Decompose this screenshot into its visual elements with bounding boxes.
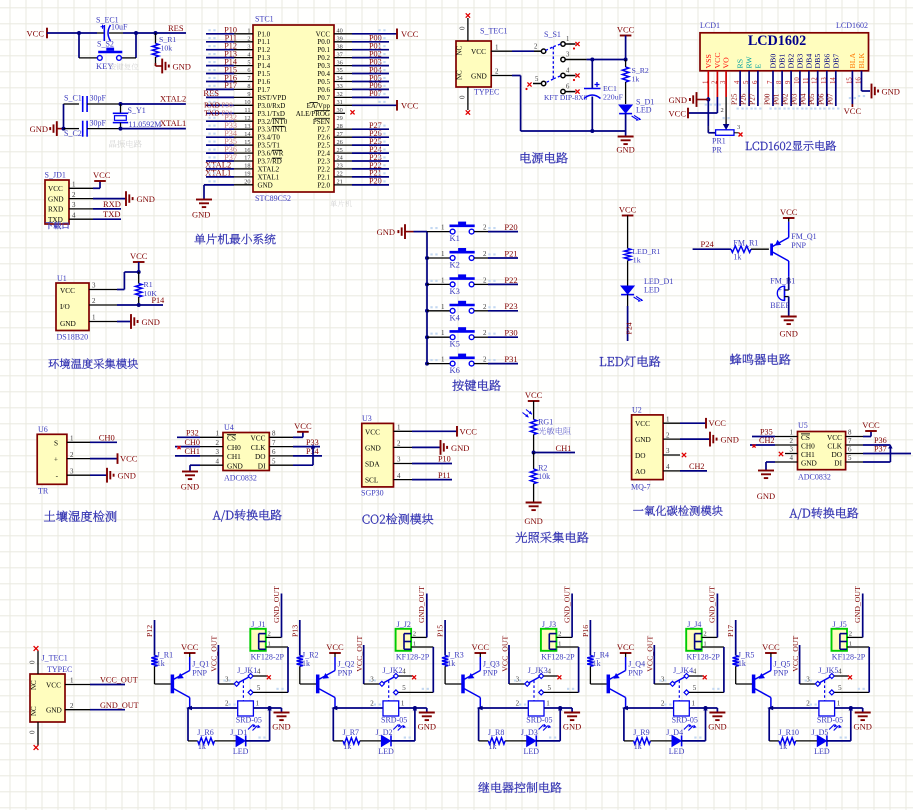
svg-text:PNP: PNP	[628, 669, 643, 678]
svg-text:12: 12	[244, 115, 250, 122]
svg-text:TYPEC: TYPEC	[474, 88, 499, 97]
J_TEC1 top stub	[37, 651, 39, 674]
svg-text:GND: GND	[30, 124, 48, 134]
svg-text:VCC_OUT: VCC_OUT	[791, 636, 800, 672]
node R1 top	[137, 270, 141, 274]
svg-text:KF128-2P: KF128-2P	[687, 653, 721, 662]
svg-text:1k: 1k	[198, 742, 206, 751]
resistor J_R9 1k	[634, 738, 651, 744]
svg-text:2: 2	[247, 36, 250, 43]
no-connect pin30	[350, 110, 354, 114]
svg-text:LED: LED	[669, 747, 685, 756]
transistor J_Q5 PNP	[752, 675, 756, 694]
U4 pin1 wire	[200, 436, 223, 438]
svg-text:3: 3	[92, 282, 96, 290]
svg-text:S_Y1: S_Y1	[128, 106, 146, 115]
svg-text:VCC: VCC	[27, 29, 45, 39]
caption grey an jian fu wei	[109, 63, 139, 70]
svg-text:7: 7	[848, 437, 852, 445]
svg-text:1k: 1k	[632, 75, 640, 84]
svg-text:VCC: VCC	[93, 170, 111, 180]
svg-text:VCC_OUT: VCC_OUT	[100, 676, 138, 685]
svg-text:P3.1/TxD: P3.1/TxD	[258, 110, 285, 118]
ground U4	[182, 471, 198, 473]
svg-text:VCC: VCC	[60, 286, 75, 295]
svg-text:GND: GND	[616, 145, 634, 155]
LED loop 1	[187, 708, 189, 741]
U6 pin2 wire	[67, 458, 90, 460]
svg-text:+: +	[54, 455, 58, 464]
svg-text:P3.7/RD: P3.7/RD	[258, 158, 282, 166]
svg-text:PNP: PNP	[774, 669, 789, 678]
transistor J_Q3 PNP	[461, 675, 465, 694]
svg-text:CH2: CH2	[759, 436, 774, 445]
push button K1	[427, 231, 450, 233]
svg-text:1: 1	[546, 700, 550, 708]
wire relay node 1	[186, 706, 192, 710]
svg-text:6: 6	[848, 446, 852, 454]
title dian yuan dian lu	[521, 152, 568, 163]
svg-text:0: 0	[459, 26, 467, 30]
connector J_J3 KF128-2P	[541, 629, 557, 651]
svg-text:ALE/PROG: ALE/PROG	[296, 110, 330, 118]
svg-text:26: 26	[337, 139, 343, 146]
svg-text:2: 2	[849, 631, 852, 638]
wire relay pin1 3	[544, 707, 572, 709]
transistor FM_Q1 PNP	[770, 244, 773, 256]
wire switch pin3 to rail	[587, 59, 626, 61]
svg-text:K4: K4	[450, 312, 461, 322]
svg-text:RES: RES	[203, 88, 219, 98]
MCU right wires P27-P20	[352, 128, 389, 130]
svg-text:24: 24	[337, 155, 344, 162]
wire RES to MCU	[206, 96, 234, 98]
svg-text:GND: GND	[418, 722, 436, 732]
svg-text:RXD: RXD	[48, 206, 63, 214]
svg-text:J_J3: J_J3	[542, 620, 556, 629]
svg-text:0: 0	[29, 730, 37, 734]
svg-text:P26: P26	[739, 93, 748, 105]
svg-text:K3: K3	[450, 286, 460, 296]
svg-text:PSEN: PSEN	[313, 118, 330, 126]
U1 pin1 wire	[89, 321, 117, 323]
svg-text:VSS: VSS	[704, 54, 713, 68]
svg-text:J_Q4: J_Q4	[628, 660, 645, 669]
svg-text:1: 1	[441, 250, 445, 258]
svg-text:1: 1	[441, 303, 445, 311]
svg-text:P1.4: P1.4	[258, 62, 271, 70]
svg-text:1: 1	[566, 36, 569, 43]
svg-text:1k: 1k	[489, 742, 497, 751]
svg-text:P02: P02	[781, 93, 790, 105]
MCU left pin stubs	[234, 33, 253, 35]
svg-text:GND: GND	[635, 435, 651, 444]
svg-text:PR1: PR1	[712, 137, 726, 146]
potentiometer PR1	[708, 132, 715, 134]
svg-text:BEEP: BEEP	[770, 301, 790, 310]
sensor U6 TR body	[37, 434, 67, 484]
pin 4 S_JD1	[69, 218, 93, 220]
key bus wire	[426, 232, 428, 364]
ground relay 2	[426, 708, 428, 712]
svg-text:RXD: RXD	[103, 199, 121, 209]
svg-text:K2: K2	[450, 260, 460, 270]
LED loop 3	[478, 708, 480, 741]
svg-text:GND: GND	[258, 181, 273, 189]
svg-text:P24: P24	[701, 239, 715, 249]
svg-text:P00: P00	[763, 93, 772, 105]
wire relay input 2	[299, 620, 301, 656]
svg-text:J_D5: J_D5	[812, 728, 829, 737]
svg-text:TXD: TXD	[103, 209, 120, 219]
svg-text:GND: GND	[779, 329, 797, 339]
power rail VCC flag	[46, 28, 48, 39]
svg-text:CH1: CH1	[227, 452, 241, 461]
VCC port S_JD1	[93, 187, 100, 189]
svg-text:P13: P13	[290, 625, 299, 637]
svg-text:KF128-2P: KF128-2P	[251, 653, 285, 662]
resistor J_R5 1k	[733, 656, 739, 667]
resistor J_R4 1k	[587, 656, 593, 667]
svg-text:CH0: CH0	[99, 432, 115, 442]
svg-text:LCD1: LCD1	[700, 21, 720, 30]
svg-text:VCC: VCC	[471, 47, 486, 56]
svg-text:ADC0832: ADC0832	[798, 473, 831, 482]
svg-text:3: 3	[216, 448, 220, 456]
connector J_J2 KF128-2P	[396, 629, 412, 651]
svg-text:P1.6: P1.6	[258, 78, 271, 86]
svg-text:ADC0832: ADC0832	[224, 474, 257, 483]
svg-text:J_D2: J_D2	[376, 728, 393, 737]
wire node to key branch	[78, 33, 80, 58]
wire KF pin2 2	[411, 636, 427, 638]
U4 pin2 wire	[200, 446, 223, 448]
ground flag S_JD1	[93, 198, 126, 200]
U5 pin6 wire	[846, 453, 863, 455]
svg-text:P11: P11	[438, 471, 450, 480]
connector J_J4 KF128-2P	[686, 629, 702, 651]
svg-text:4: 4	[666, 463, 670, 471]
U4 pin5 wire	[269, 464, 293, 466]
svg-text:P1.5: P1.5	[258, 70, 271, 78]
svg-text:VCC: VCC	[525, 390, 543, 400]
svg-text:VCC: VCC	[48, 185, 63, 193]
svg-text:10k: 10k	[538, 472, 550, 481]
U1 pin2 wire	[89, 304, 117, 306]
svg-text:1: 1	[558, 640, 561, 647]
svg-text:27: 27	[337, 131, 343, 138]
svg-text:1: 1	[703, 640, 706, 647]
svg-text:SCL: SCL	[365, 476, 379, 485]
svg-text:40: 40	[337, 28, 343, 35]
svg-text:GND: GND	[524, 516, 542, 526]
U3 pin1 wire	[394, 430, 413, 432]
svg-text:DB3: DB3	[795, 54, 804, 69]
LED loop 5	[768, 708, 770, 741]
svg-text:BLA: BLA	[848, 53, 857, 69]
svg-text:U1: U1	[57, 274, 67, 283]
svg-text:P0.1: P0.1	[317, 46, 330, 54]
svg-text:P3.6/WR: P3.6/WR	[258, 150, 284, 158]
svg-text:P0.4: P0.4	[317, 70, 330, 78]
title AD zhuan huan 1	[213, 509, 282, 521]
svg-text:NC: NC	[456, 45, 464, 55]
wire relay node 2	[331, 706, 337, 710]
svg-text:3: 3	[566, 52, 570, 59]
svg-text:VCC: VCC	[713, 52, 722, 68]
svg-text:U3: U3	[362, 414, 372, 423]
svg-text:P0.3: P0.3	[317, 62, 330, 70]
svg-text:S: S	[54, 439, 58, 448]
LED J_D2	[381, 735, 390, 746]
svg-text:0: 0	[29, 660, 37, 664]
svg-text:14: 14	[244, 131, 251, 138]
svg-text:GND_OUT: GND_OUT	[100, 701, 139, 710]
svg-text:22: 22	[337, 171, 343, 178]
svg-text:VCC: VCC	[762, 642, 780, 652]
MCU right wires P00-P07	[352, 41, 389, 43]
svg-text:FM_R1: FM_R1	[733, 239, 758, 248]
svg-text:GND: GND	[48, 195, 64, 203]
svg-text:P37: P37	[874, 445, 887, 454]
capacitor S_C1 30pF	[82, 96, 84, 112]
svg-text:J_R9: J_R9	[633, 728, 649, 737]
svg-text:23: 23	[337, 163, 343, 170]
svg-text:J_JK4: J_JK4	[673, 666, 693, 675]
U2 pin1 wire	[663, 422, 680, 424]
svg-text:P32: P32	[186, 429, 199, 438]
svg-text:XTAL1: XTAL1	[258, 173, 280, 181]
svg-text:J_TEC1: J_TEC1	[42, 654, 68, 663]
svg-text:2: 2	[483, 329, 487, 337]
resistor J_R10 1k	[779, 738, 796, 744]
svg-text:11: 11	[244, 107, 250, 114]
U2 pin2 wire	[663, 438, 680, 440]
svg-text:P10: P10	[438, 455, 451, 464]
ground relay 5	[862, 708, 864, 712]
ground flag U3	[440, 440, 442, 455]
svg-text:VCC: VCC	[709, 418, 727, 428]
node xtal1	[119, 127, 123, 131]
MCU U-STC1 body	[253, 25, 334, 192]
sensor U1 DS18B20 body	[56, 283, 89, 331]
svg-text:13: 13	[244, 123, 250, 130]
svg-text:10k: 10k	[161, 44, 173, 53]
svg-text:1: 1	[441, 356, 445, 364]
svg-text:VCC: VCC	[635, 419, 650, 428]
relay SRD-05 1	[238, 701, 254, 716]
svg-text:VCC: VCC	[294, 421, 312, 431]
svg-text:P14: P14	[152, 296, 165, 305]
svg-text:GND: GND	[451, 443, 469, 453]
title feng ming qi dian lu	[730, 354, 791, 365]
resistor J_R3 1k	[442, 656, 448, 667]
relay SRD-05 5	[819, 701, 835, 716]
svg-text:2: 2	[483, 250, 487, 258]
svg-text:P30: P30	[222, 101, 234, 109]
svg-text:DI: DI	[834, 458, 842, 467]
wire relay pin1 1	[253, 707, 281, 709]
wire XTAL1	[121, 128, 186, 130]
svg-text:VCC: VCC	[617, 642, 635, 652]
svg-text:U2: U2	[632, 406, 642, 415]
wire KF pin1 4	[702, 646, 724, 648]
wire XTAL2	[121, 103, 186, 105]
wire KF pin2 1	[266, 636, 282, 638]
wire TXD	[93, 218, 121, 220]
LCD pin15 wire	[851, 71, 853, 104]
capacitor S_EC1	[97, 32, 104, 34]
ground relay 1	[281, 708, 283, 712]
svg-text:SGP30: SGP30	[361, 489, 384, 498]
title LCD1602 xian shi dian lu	[746, 141, 837, 151]
U6 pin3 wire	[67, 474, 90, 476]
connector J_J5 KF128-2P	[832, 629, 848, 651]
pin 2 S_JD1	[69, 198, 93, 200]
svg-text:KF128-2P: KF128-2P	[541, 653, 575, 662]
svg-text:GND: GND	[137, 194, 155, 204]
svg-text:GND: GND	[227, 462, 243, 471]
relay SRD-05 3	[528, 701, 544, 716]
svg-text:1: 1	[268, 640, 271, 647]
wire KF pin2 3	[556, 636, 572, 638]
push button K3	[425, 282, 429, 286]
svg-text:P21: P21	[504, 248, 517, 258]
U5 pin2 wire	[775, 444, 798, 446]
svg-text:P3.5/T1: P3.5/T1	[258, 142, 281, 150]
svg-text:6: 6	[272, 448, 276, 456]
svg-text:5: 5	[838, 684, 842, 692]
svg-text:CLK: CLK	[251, 443, 266, 452]
svg-text:PR: PR	[712, 146, 722, 155]
svg-text:J_Q3: J_Q3	[483, 660, 500, 669]
svg-text:P1.1: P1.1	[258, 38, 271, 46]
svg-text:P16: P16	[581, 625, 590, 637]
svg-text:VCC: VCC	[460, 426, 478, 436]
svg-text:2: 2	[70, 702, 74, 710]
title LED deng dian lu	[600, 356, 661, 367]
svg-text:DB1: DB1	[778, 54, 787, 69]
U5 pin7 wire	[846, 444, 863, 446]
svg-text:34: 34	[337, 75, 344, 82]
svg-text:3: 3	[790, 446, 794, 454]
svg-text:10: 10	[244, 99, 250, 106]
resistor J_R7 1k	[343, 738, 360, 744]
svg-text:VCC_OUT: VCC_OUT	[500, 636, 509, 672]
svg-text:4: 4	[548, 668, 552, 676]
svg-text:3: 3	[70, 467, 74, 475]
svg-text:2: 2	[703, 631, 706, 638]
svg-text:33: 33	[337, 83, 343, 90]
svg-text:GND: GND	[471, 71, 487, 80]
S_TEC1 pin1 wire	[491, 50, 512, 52]
wire KF pin1 3	[556, 646, 578, 648]
LED J_D4	[672, 735, 681, 746]
ground U5	[758, 470, 774, 472]
ground flag U2	[709, 432, 711, 447]
svg-text:J_J2: J_J2	[397, 620, 411, 629]
svg-text:CH0: CH0	[185, 438, 200, 447]
LCD pin2 VCC wire	[716, 71, 718, 97]
svg-text:P1.7: P1.7	[258, 86, 271, 94]
svg-text:S_C1: S_C1	[64, 94, 82, 103]
resistor J_R6 1k	[198, 738, 215, 744]
svg-text:J_JK3: J_JK3	[528, 666, 548, 675]
svg-text:GND: GND	[757, 491, 775, 501]
svg-text:3: 3	[397, 456, 401, 464]
svg-text:P03: P03	[789, 93, 798, 105]
svg-text:GND: GND	[118, 471, 136, 481]
svg-text:RW: RW	[745, 56, 754, 69]
U3 pin3 wire	[394, 463, 413, 465]
svg-text:2: 2	[534, 44, 538, 51]
svg-text:4: 4	[72, 211, 76, 219]
svg-text:DO: DO	[635, 451, 646, 460]
wire RXD	[93, 208, 121, 210]
svg-text:GND_OUT: GND_OUT	[853, 586, 862, 623]
svg-text:2: 2	[72, 191, 76, 199]
svg-text:GND: GND	[272, 722, 290, 732]
svg-text:+: +	[778, 286, 782, 294]
svg-text:P2.1: P2.1	[317, 173, 330, 181]
svg-text:0: 0	[459, 95, 467, 99]
wire KF pin2 5	[847, 636, 863, 638]
svg-text:MQ-7: MQ-7	[631, 483, 651, 492]
svg-text:KFT DIP-8X8: KFT DIP-8X8	[544, 93, 588, 102]
U4 pin6 wire	[269, 455, 293, 457]
svg-text:GND_OUT: GND_OUT	[272, 586, 281, 623]
wire	[135, 33, 137, 58]
svg-text:P20: P20	[504, 222, 517, 232]
svg-text:GND_OUT: GND_OUT	[708, 586, 717, 623]
svg-text:1: 1	[441, 329, 445, 337]
wire cap to RES	[123, 32, 136, 34]
U3 pin2 wire	[394, 446, 413, 448]
svg-text:VCC_OUT: VCC_OUT	[646, 636, 655, 672]
wire relay pin1 5	[835, 707, 863, 709]
wire P24 buzzer	[693, 248, 731, 250]
svg-text:15: 15	[244, 139, 250, 146]
svg-text:P31: P31	[504, 354, 517, 364]
svg-text:1: 1	[413, 640, 416, 647]
svg-text:J_J4: J_J4	[687, 620, 701, 629]
resistor LED_R1 1k	[624, 249, 630, 261]
svg-text:J_Q5: J_Q5	[774, 660, 791, 669]
LCD VCC flag	[687, 108, 689, 119]
svg-text:P2.6: P2.6	[317, 134, 330, 142]
svg-text:P17: P17	[224, 81, 237, 90]
LCD pin3 VO wire	[725, 71, 727, 97]
push button K4	[425, 309, 429, 313]
crystal S_Y1 11.0592M	[120, 104, 122, 113]
title AD zhuan huan 2	[789, 507, 858, 519]
svg-text:GND: GND	[192, 210, 210, 220]
svg-text:1: 1	[397, 424, 401, 432]
svg-text:P07: P07	[825, 93, 834, 105]
svg-text:1: 1	[70, 435, 74, 443]
LCD1 module body	[700, 33, 869, 71]
svg-text:32: 32	[337, 91, 343, 98]
svg-text:J_JK2: J_JK2	[383, 666, 403, 675]
svg-text:37: 37	[337, 51, 343, 58]
svg-text:XTAL2: XTAL2	[160, 94, 186, 104]
MCU VCC pin31	[352, 104, 397, 106]
svg-text:GND: GND	[721, 435, 739, 445]
svg-text:30: 30	[337, 107, 343, 114]
svg-text:3: 3	[666, 447, 670, 455]
wire RES	[136, 32, 186, 34]
svg-text:DB5: DB5	[813, 54, 822, 69]
